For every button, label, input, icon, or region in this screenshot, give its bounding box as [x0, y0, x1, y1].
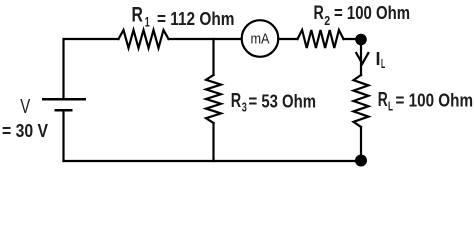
- svg-text:R: R: [314, 3, 324, 24]
- wire R3 to bottom rail: [212, 123, 214, 161]
- wire ammeter to R2: [278, 38, 297, 40]
- resistor RL: [354, 75, 369, 127]
- node bottom-right junction dot: [355, 155, 367, 167]
- wire top junction down to R3: [212, 39, 214, 75]
- svg-text:3: 3: [242, 100, 247, 115]
- wire node down to RL: [360, 45, 362, 75]
- bottom rail wire: [64, 160, 362, 162]
- svg-text:V: V: [20, 95, 30, 118]
- node top-right junction dot: [355, 34, 367, 46]
- wire R1 to ammeter: [169, 38, 242, 40]
- svg-text:1: 1: [145, 14, 150, 30]
- svg-text:= 30 V: = 30 V: [2, 121, 48, 141]
- resistor R3: [206, 75, 221, 123]
- battery V1 long plate: [42, 98, 86, 101]
- resistor R1: [119, 30, 169, 48]
- current arrow IL: [356, 53, 368, 64]
- svg-text:L: L: [388, 99, 393, 114]
- battery V1 short plate: [55, 109, 73, 112]
- wire left vertical top (battery + to top rail to R1): [64, 39, 119, 99]
- wire RL to bottom node: [360, 127, 362, 155]
- svg-text:L: L: [381, 57, 385, 71]
- wire R2 to node: [344, 38, 362, 40]
- svg-text:= 112 Ohm: = 112 Ohm: [157, 8, 235, 29]
- ammeter mA: [242, 20, 279, 57]
- wire battery - down to bottom rail: [62, 111, 64, 162]
- svg-text:R: R: [132, 4, 143, 27]
- svg-text:= 53 Ohm: = 53 Ohm: [249, 91, 317, 112]
- svg-text:mA: mA: [251, 32, 270, 48]
- svg-text:2: 2: [324, 13, 330, 28]
- svg-text:R: R: [378, 89, 388, 111]
- svg-text:I: I: [376, 49, 381, 69]
- svg-text:= 100 Ohm: = 100 Ohm: [334, 3, 410, 23]
- svg-text:R: R: [231, 90, 242, 112]
- svg-text:= 100 Ohm: = 100 Ohm: [396, 91, 474, 111]
- resistor R2: [298, 30, 344, 48]
